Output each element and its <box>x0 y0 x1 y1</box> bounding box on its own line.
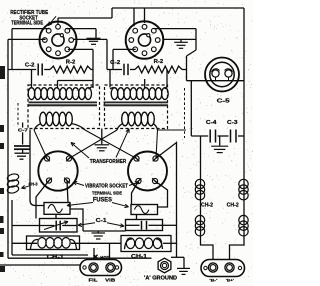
svg-text:VIBRATOR SOCKET: VIBRATOR SOCKET <box>85 183 128 189</box>
svg-text:C-4: C-4 <box>206 120 217 126</box>
svg-text:CH-1: CH-1 <box>131 254 147 260</box>
svg-text:C-5: C-5 <box>217 99 230 105</box>
svg-text:'A' GROUND: 'A' GROUND <box>144 275 177 281</box>
svg-text:C-2: C-2 <box>110 60 120 66</box>
svg-text:FIL: FIL <box>89 277 98 282</box>
svg-text:TRANSFORMER: TRANSFORMER <box>90 159 127 165</box>
svg-text:'B-': 'B-' <box>209 278 217 283</box>
svg-text:CH-3: CH-3 <box>29 181 38 186</box>
svg-text:CH-2: CH-2 <box>201 202 213 208</box>
svg-text:C-2: C-2 <box>25 62 35 68</box>
svg-text:R-2: R-2 <box>66 60 76 66</box>
svg-text:HOT: HOT <box>100 255 109 261</box>
svg-text:CH-2: CH-2 <box>227 202 239 208</box>
svg-text:TERMINAL SIDE: TERMINAL SIDE <box>11 21 43 27</box>
svg-text:C-7: C-7 <box>18 127 29 132</box>
svg-text:TERMINAL SIDE: TERMINAL SIDE <box>92 191 123 197</box>
svg-text:C-1: C-1 <box>96 218 107 224</box>
svg-text:'B+': 'B+' <box>226 278 234 283</box>
svg-text:VIB: VIB <box>105 277 116 282</box>
svg-text:R-2: R-2 <box>154 59 164 65</box>
svg-text:C-3: C-3 <box>227 120 238 126</box>
svg-text:FUSES: FUSES <box>93 198 112 204</box>
